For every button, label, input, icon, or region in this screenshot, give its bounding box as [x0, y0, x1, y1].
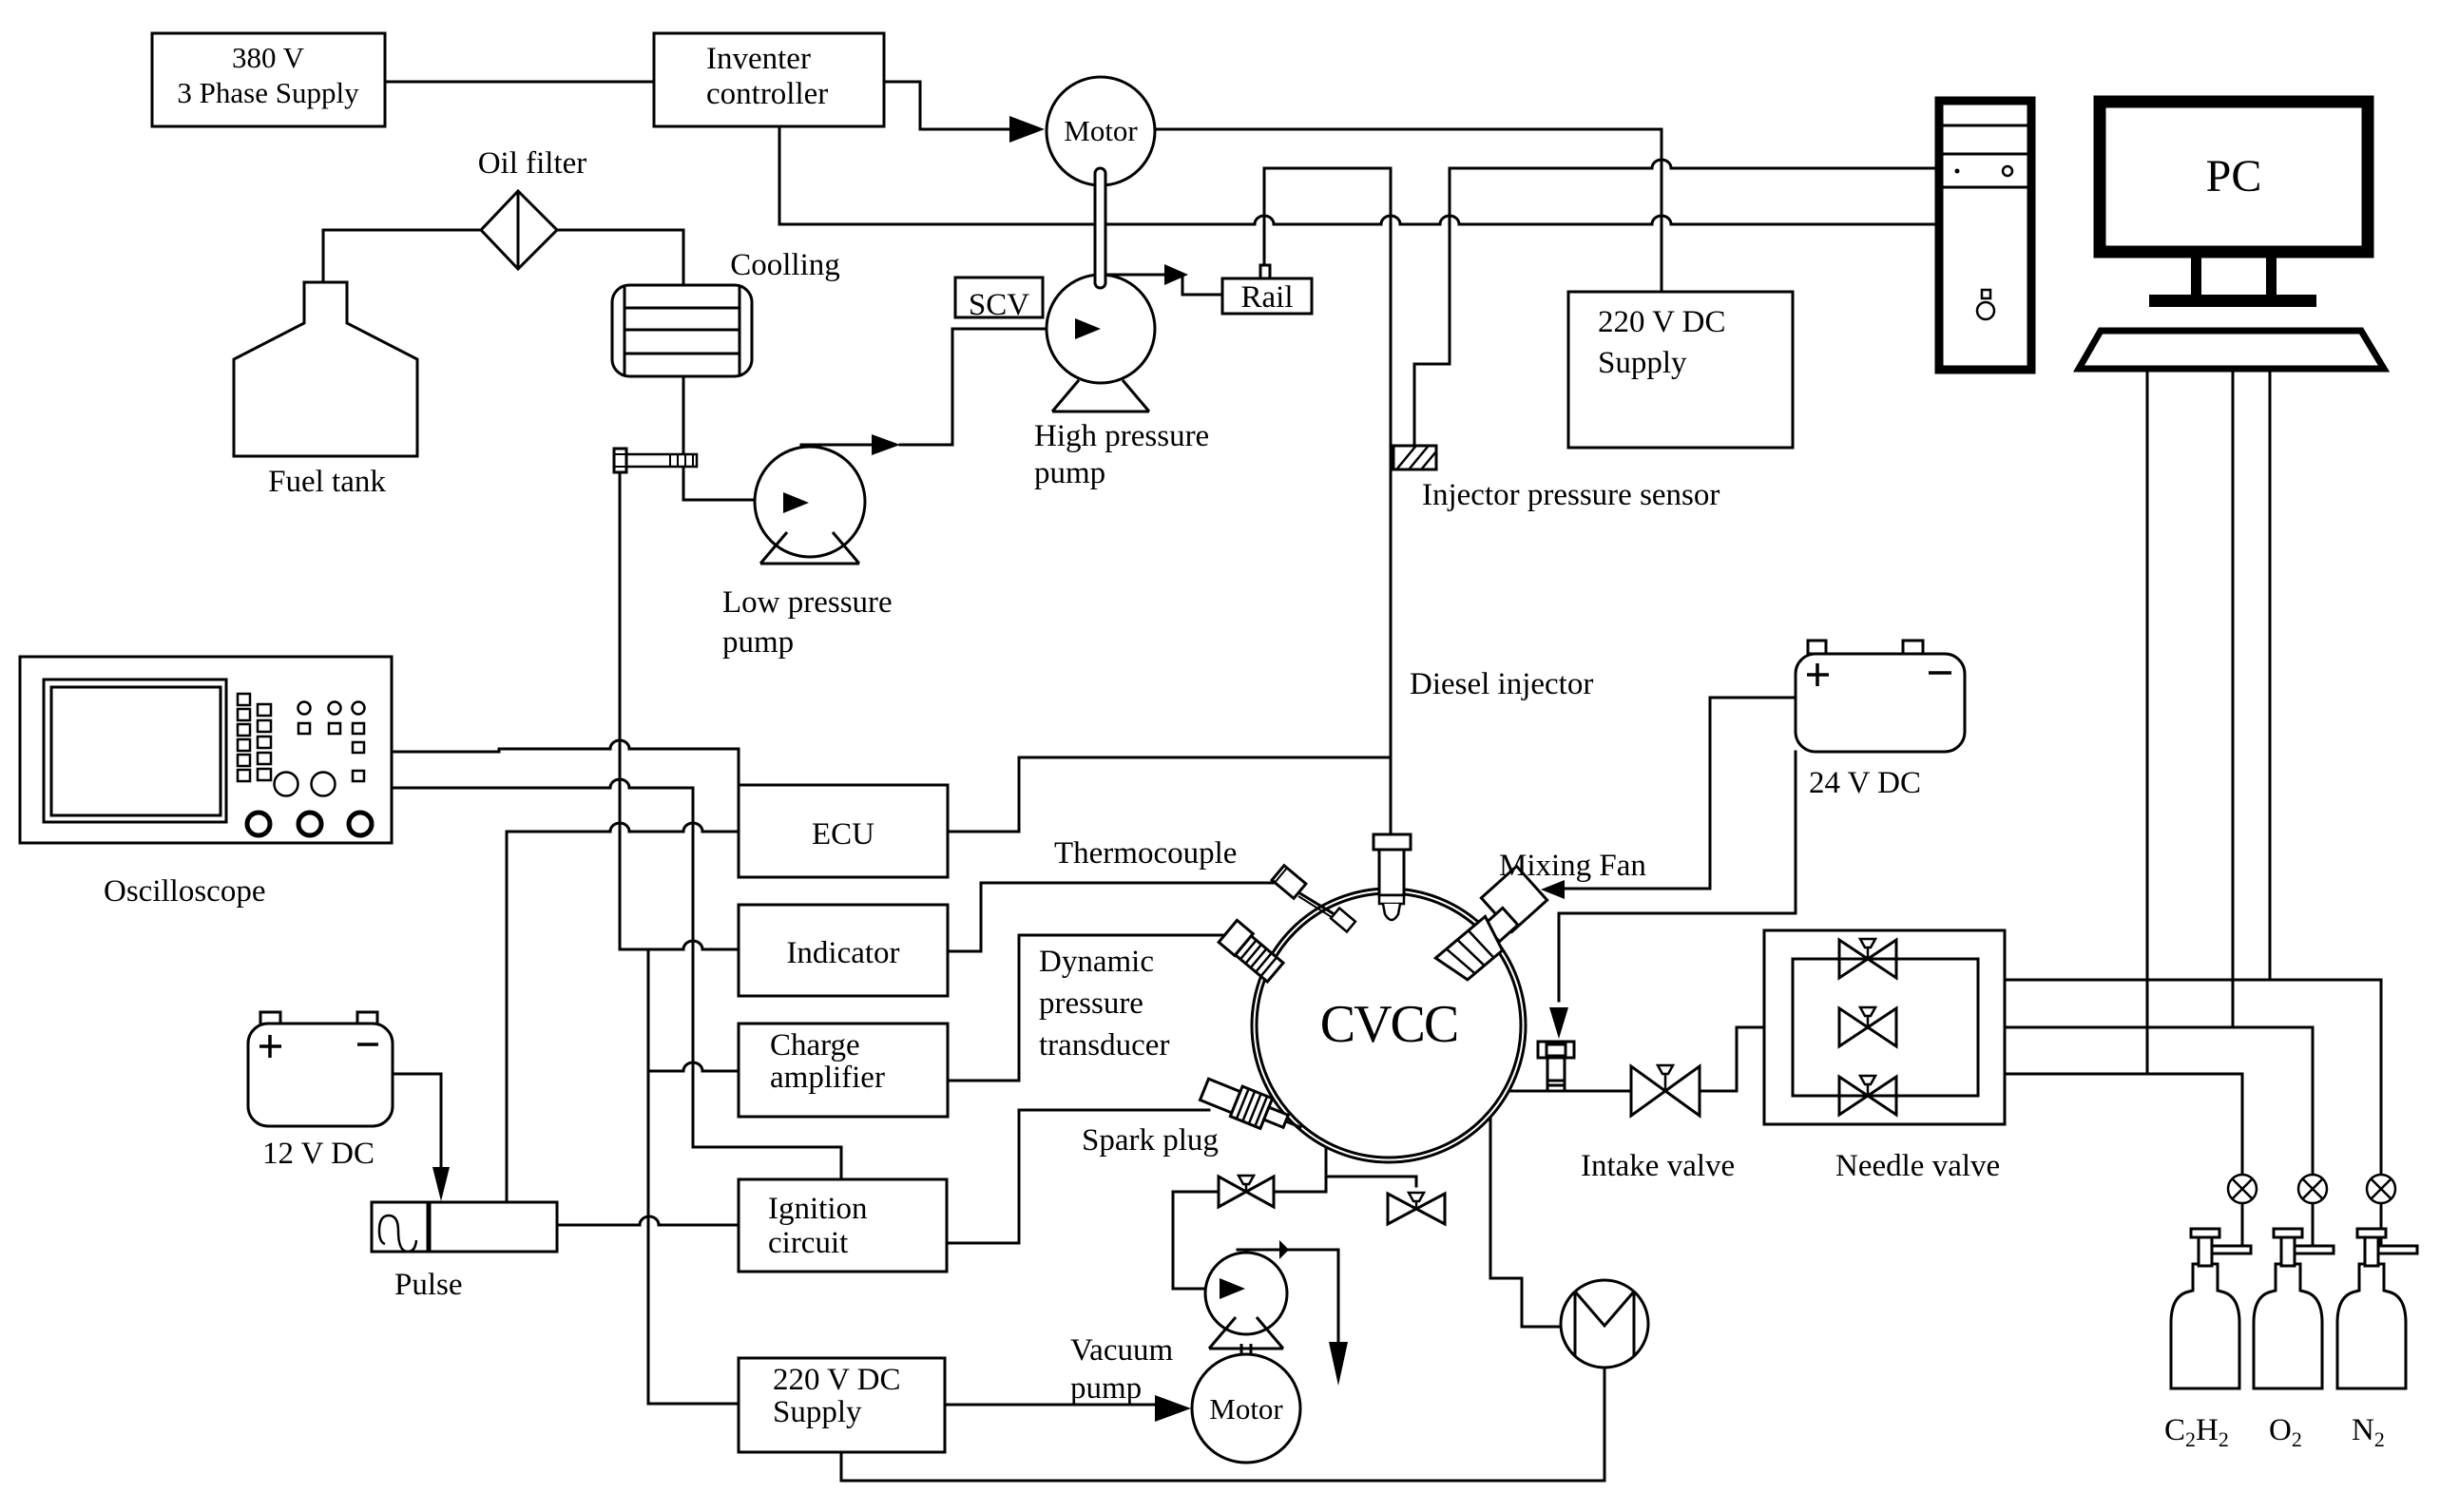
svg-text:Supply: Supply — [773, 1395, 862, 1429]
svg-text:pump: pump — [1070, 1371, 1142, 1406]
svg-text:Coolling: Coolling — [730, 248, 840, 282]
svg-text:Vacuum: Vacuum — [1070, 1333, 1173, 1368]
svg-text:pump: pump — [722, 625, 794, 660]
svg-text:Mixing Fan: Mixing Fan — [1499, 849, 1646, 883]
svg-text:Rail: Rail — [1241, 280, 1294, 315]
svg-text:ECU: ECU — [812, 817, 874, 852]
svg-text:Inventer: Inventer — [706, 42, 811, 76]
svg-text:Needle valve: Needle valve — [1835, 1149, 2000, 1183]
svg-text:Low pressure: Low pressure — [722, 585, 893, 620]
svg-text:Indicator: Indicator — [786, 936, 899, 970]
svg-text:Diesel injector: Diesel injector — [1410, 667, 1593, 701]
svg-text:amplifier: amplifier — [770, 1061, 885, 1095]
svg-text:circuit: circuit — [768, 1226, 848, 1260]
svg-text:pressure: pressure — [1039, 986, 1143, 1021]
svg-text:Supply: Supply — [1598, 346, 1687, 380]
svg-text:Injector pressure sensor: Injector pressure sensor — [1422, 478, 1720, 512]
svg-text:Fuel tank: Fuel tank — [268, 465, 386, 499]
svg-text:transducer: transducer — [1039, 1028, 1169, 1062]
svg-text:Spark plug: Spark plug — [1082, 1123, 1219, 1158]
svg-text:Thermocouple: Thermocouple — [1054, 836, 1237, 871]
svg-text:Motor: Motor — [1064, 114, 1138, 147]
svg-text:SCV: SCV — [969, 288, 1029, 322]
svg-text:Intake valve: Intake valve — [1581, 1149, 1735, 1183]
svg-text:Charge: Charge — [770, 1028, 860, 1062]
svg-text:Motor: Motor — [1209, 1392, 1283, 1426]
svg-text:3 Phase Supply: 3 Phase Supply — [177, 76, 359, 109]
svg-text:Oscilloscope: Oscilloscope — [104, 874, 265, 909]
svg-text:CVCC: CVCC — [1320, 995, 1458, 1054]
svg-text:220 V DC: 220 V DC — [773, 1363, 900, 1397]
svg-text:pump: pump — [1034, 456, 1105, 490]
svg-text:Ignition: Ignition — [768, 1192, 868, 1226]
svg-text:Oil filter: Oil filter — [478, 146, 587, 181]
svg-text:Dynamic: Dynamic — [1039, 945, 1154, 979]
svg-text:PC: PC — [2206, 151, 2262, 201]
svg-text:12 V DC: 12 V DC — [262, 1137, 375, 1171]
svg-text:High pressure: High pressure — [1034, 419, 1209, 453]
svg-text:controller: controller — [706, 77, 828, 111]
svg-text:380 V: 380 V — [232, 41, 305, 74]
svg-text:220 V DC: 220 V DC — [1598, 305, 1725, 339]
svg-text:Pulse: Pulse — [394, 1268, 463, 1302]
svg-text:24 V DC: 24 V DC — [1809, 766, 1921, 800]
